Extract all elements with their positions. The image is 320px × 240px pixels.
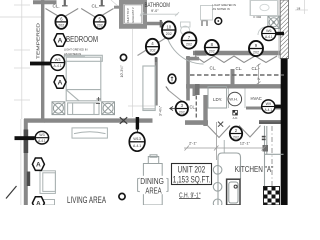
svg-text:202: 202 xyxy=(179,110,185,114)
svg-text:LIGHT GREYED IN: LIGHT GREYED IN xyxy=(213,3,236,7)
svg-text:9'-0": 9'-0" xyxy=(151,9,159,13)
svg-text:A: A xyxy=(36,200,41,205)
svg-text:W3: W3 xyxy=(39,133,44,137)
svg-text:A-4.1: A-4.1 xyxy=(54,64,62,68)
svg-text:TEMPERED: TEMPERED xyxy=(36,22,41,59)
svg-text:A: A xyxy=(36,162,41,169)
svg-text:10'-3¼": 10'-3¼" xyxy=(120,65,124,78)
svg-text:202: 202 xyxy=(209,50,215,54)
svg-text:W.H.: W.H. xyxy=(229,97,238,102)
svg-text:LDY.: LDY. xyxy=(213,97,222,102)
svg-text:10: 10 xyxy=(166,24,171,29)
svg-text:202: 202 xyxy=(150,49,156,53)
svg-text:1/8: 1/8 xyxy=(297,7,301,11)
svg-text:202: 202 xyxy=(233,135,239,139)
svg-text:2': 2' xyxy=(257,77,261,80)
svg-text:DUCT TO P: DUCT TO P xyxy=(126,8,130,23)
svg-text:202: 202 xyxy=(186,43,192,47)
svg-text:2'-1": 2'-1" xyxy=(189,141,198,146)
svg-text:A: A xyxy=(58,37,63,44)
svg-text:1,153 SQ.FT.: 1,153 SQ.FT. xyxy=(173,175,211,185)
svg-text:CL.: CL. xyxy=(190,104,197,109)
svg-text:AREA: AREA xyxy=(145,186,161,196)
svg-text:W13: W13 xyxy=(133,137,141,141)
svg-text:202: 202 xyxy=(166,32,172,36)
svg-text:AS NOTED IN: AS NOTED IN xyxy=(213,7,230,11)
svg-text:A-4.1: A-4.1 xyxy=(264,108,272,112)
svg-text:A-4.1: A-4.1 xyxy=(133,144,141,148)
svg-text:A-4.1: A-4.1 xyxy=(38,139,46,143)
svg-text:CL.: CL. xyxy=(92,4,99,9)
svg-text:A-4.1: A-4.1 xyxy=(265,35,273,39)
svg-text:UNIT 202: UNIT 202 xyxy=(178,165,206,175)
svg-text:LIGHT GREYED IN: LIGHT GREYED IN xyxy=(64,48,87,52)
svg-text:LIVING AREA: LIVING AREA xyxy=(67,195,106,205)
svg-text:W6: W6 xyxy=(266,29,271,33)
svg-text:202: 202 xyxy=(253,51,259,55)
svg-text:CL.: CL. xyxy=(210,65,217,70)
svg-text:202: 202 xyxy=(97,24,103,28)
svg-text:AS NOTED IN: AS NOTED IN xyxy=(64,52,81,56)
svg-text:CL.-: CL.- xyxy=(252,66,261,71)
svg-text:W3: W3 xyxy=(55,58,61,62)
svg-text:CL.: CL. xyxy=(236,66,243,71)
svg-text:3'-4¼": 3'-4¼" xyxy=(159,105,163,116)
svg-text:KITCHEN "A": KITCHEN "A" xyxy=(235,164,274,174)
svg-text:A: A xyxy=(58,79,63,86)
svg-text:A.D.: A.D. xyxy=(233,116,239,120)
svg-text:F 302: F 302 xyxy=(254,15,262,19)
svg-text:CL.: CL. xyxy=(53,4,60,9)
svg-text:EXHAUST V: EXHAUST V xyxy=(131,7,135,22)
svg-text:BEDROOM: BEDROOM xyxy=(66,34,98,44)
svg-text:HVAC: HVAC xyxy=(251,96,262,101)
svg-text:202: 202 xyxy=(58,24,64,28)
svg-text:W9: W9 xyxy=(266,102,271,106)
svg-text:12'-1": 12'-1" xyxy=(240,140,251,145)
